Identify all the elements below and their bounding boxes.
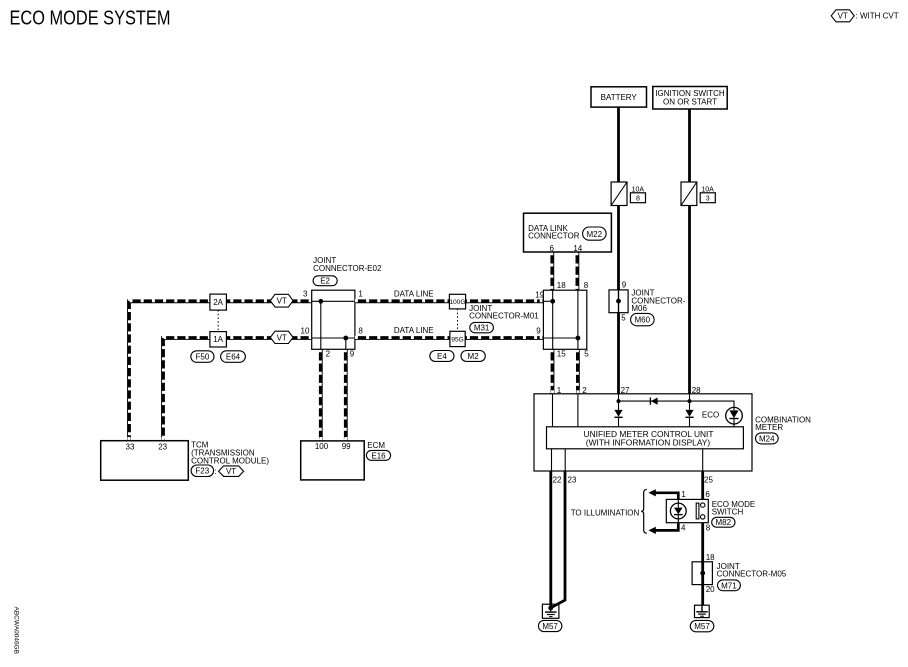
wire CAN M01 pin15 to meter pin1 <box>550 349 554 394</box>
wire CAN TCM pin33 to E02 pin3 (L-shape) <box>129 301 312 441</box>
meter internal wire pin1 <box>552 394 554 427</box>
svg-text:8: 8 <box>636 196 640 203</box>
terminal notch ECM pin100 <box>319 437 322 440</box>
diode D1 at pin27 <box>614 410 622 427</box>
svg-text:25: 25 <box>704 475 713 484</box>
svg-text:F23: F23 <box>195 467 209 476</box>
joint connector M06 box <box>609 290 628 313</box>
junction dot M06 <box>616 299 621 304</box>
connector oval F50 <box>191 351 214 363</box>
VT hexagon TCM <box>219 466 244 477</box>
svg-text:F50: F50 <box>196 352 210 361</box>
svg-text:1: 1 <box>681 490 686 499</box>
svg-text:1A: 1A <box>213 335 223 344</box>
svg-text:E2: E2 <box>320 277 330 286</box>
svg-text:95G: 95G <box>451 337 463 344</box>
connector oval M24 <box>756 433 779 444</box>
diode D3 horizontal <box>650 398 657 405</box>
svg-text:9: 9 <box>622 281 627 290</box>
inline connector 1A <box>210 332 227 347</box>
fuse F1 number box 8 <box>630 193 645 203</box>
meter internal wire pin25 <box>702 449 704 471</box>
svg-text:2: 2 <box>582 386 587 395</box>
svg-text:2A: 2A <box>213 298 223 307</box>
svg-text:8: 8 <box>584 281 589 290</box>
wire CAN TCM pin23 to E02 pin10 (L-shape) <box>163 337 312 440</box>
svg-text:9: 9 <box>350 350 355 359</box>
svg-text:4: 4 <box>681 524 686 533</box>
wire DLC pin6 CAN down <box>550 252 554 290</box>
VT hexagon on lower wire <box>270 331 293 343</box>
terminal notch TCM pin23 <box>162 437 165 440</box>
TCM box <box>101 441 189 481</box>
svg-text:CONTROL MODULE): CONTROL MODULE) <box>191 457 269 466</box>
wire battery vertical <box>617 107 620 394</box>
svg-text:10: 10 <box>301 326 310 335</box>
svg-text:33: 33 <box>126 443 135 452</box>
meter internal bus wire <box>619 401 735 407</box>
meter internal wire pin2 <box>577 394 579 427</box>
connector oval M57 right <box>690 620 714 631</box>
svg-text:23: 23 <box>158 443 167 452</box>
wire meter pin23 to ground <box>551 471 565 608</box>
connector oval E64 <box>221 351 246 363</box>
dotted pair line 2A-1A <box>217 310 219 332</box>
wire CAN E02 pin2 to ECM pin100 <box>318 349 322 440</box>
wire CAN data line E02 pin1 to M01 pin19 <box>355 299 544 303</box>
junction dot E02 pin2 <box>318 299 323 304</box>
svg-text:(WITH INFORMATION DISPLAY): (WITH INFORMATION DISPLAY) <box>586 438 711 448</box>
svg-text:CONNECTOR-M05: CONNECTOR-M05 <box>717 570 787 579</box>
svg-text:DATA LINE: DATA LINE <box>394 326 434 335</box>
svg-text:ECM: ECM <box>367 441 385 450</box>
dotted pair line 100G-95G <box>457 309 459 331</box>
terminal notch M01 pin19 <box>540 299 543 302</box>
connector oval E2 <box>313 276 337 286</box>
svg-text:15: 15 <box>557 350 566 359</box>
fuse F2 number box 3 <box>700 193 715 203</box>
connector oval F23 <box>191 465 214 477</box>
svg-text:20: 20 <box>706 585 715 594</box>
svg-text:E4: E4 <box>437 352 447 361</box>
svg-text:M06: M06 <box>631 304 647 313</box>
joint connector M05 box <box>692 562 712 585</box>
inline connector 95G <box>450 331 465 346</box>
svg-text:VT: VT <box>277 297 287 306</box>
unified meter control unit box <box>547 427 744 449</box>
svg-text:CONNECTOR: CONNECTOR <box>528 232 580 241</box>
svg-text:18: 18 <box>706 553 715 562</box>
brace TO ILLUMINATION <box>641 489 647 533</box>
svg-text:M24: M24 <box>759 434 775 443</box>
wire switch pin8 down to ground <box>701 518 704 606</box>
junction dot E02 pin9 <box>343 336 348 341</box>
svg-text:VT: VT <box>226 467 236 476</box>
terminal notch TCM pin33 <box>128 437 131 440</box>
svg-text:100G: 100G <box>450 299 466 306</box>
wire DLC pin14 CAN down <box>575 252 579 290</box>
svg-text:M31: M31 <box>474 324 490 333</box>
svg-text:M57: M57 <box>542 622 558 631</box>
svg-text:5: 5 <box>621 314 626 323</box>
terminal notch meter pin1 <box>551 390 554 393</box>
connector oval M71 <box>718 580 741 591</box>
ignition switch box <box>653 87 727 110</box>
svg-text:VT: VT <box>277 333 287 342</box>
svg-text:M82: M82 <box>716 518 732 527</box>
fuse F1 10A #8 <box>611 182 627 206</box>
svg-text:9: 9 <box>536 326 541 335</box>
svg-text:22: 22 <box>553 475 562 484</box>
svg-text:19: 19 <box>535 290 544 299</box>
svg-text:23: 23 <box>568 475 577 484</box>
wire meter pin22 to ground <box>549 471 552 608</box>
joint connector E02 box <box>312 290 355 349</box>
connector oval M60 <box>631 313 655 325</box>
label joint connector E02 <box>313 256 382 273</box>
connector oval E4 <box>430 351 454 362</box>
svg-text:BATTERY: BATTERY <box>601 93 638 102</box>
wire CAN E02 pin9 to ECM pin99 <box>343 349 347 440</box>
inline connector 100G <box>449 294 465 309</box>
svg-text:: WITH CVT: : WITH CVT <box>856 12 899 21</box>
inline connector 2A <box>210 294 227 310</box>
connector oval M31 <box>470 322 494 332</box>
ground symbol left <box>545 608 557 617</box>
svg-text:ON OR START: ON OR START <box>663 97 717 106</box>
ground box left M57 <box>542 604 559 618</box>
svg-text:M57: M57 <box>694 622 710 631</box>
connector oval M82 <box>712 517 735 527</box>
ground symbol right <box>696 605 707 616</box>
illumination arrow top <box>648 489 678 499</box>
ECO indicator lamp <box>726 407 743 426</box>
VT hexagon on upper wire <box>270 294 293 307</box>
combination meter box <box>534 394 752 471</box>
svg-text:6: 6 <box>705 490 710 499</box>
terminal notch meter pin2 <box>576 390 579 393</box>
label TCM <box>191 441 269 466</box>
meter internal wire pin23 <box>564 449 566 471</box>
junction dot ground left <box>548 606 553 611</box>
meter internal wire pin27 <box>618 394 620 410</box>
svg-text:5: 5 <box>584 350 589 359</box>
junction dot M01 upper <box>550 299 555 304</box>
ground box right M57 <box>695 605 710 617</box>
illumination arrow bottom <box>648 523 678 534</box>
wire CAN M01 pin5 to meter pin2 <box>575 349 579 394</box>
svg-text::: : <box>215 467 217 476</box>
connector oval E16 <box>366 450 390 460</box>
svg-text:ECO MODE SYSTEM: ECO MODE SYSTEM <box>10 7 171 29</box>
svg-text:E64: E64 <box>226 352 241 361</box>
svg-text:SWITCH: SWITCH <box>712 508 744 517</box>
legend VT hexagon <box>831 10 854 22</box>
ECM box <box>301 441 365 480</box>
svg-text:8: 8 <box>358 326 363 335</box>
svg-text:1: 1 <box>557 386 562 395</box>
svg-text:DATA LINE: DATA LINE <box>394 290 434 299</box>
svg-text:3: 3 <box>303 289 308 298</box>
wire meter pin25 to switch pin6 <box>701 471 704 505</box>
wire CAN data line E02 pin8 to M01 pin9 <box>355 335 544 339</box>
diode D2 at pin28 <box>685 410 693 427</box>
svg-text:TO ILLUMINATION: TO ILLUMINATION <box>571 508 640 517</box>
eco mode switch box M82 <box>666 499 708 522</box>
svg-text:ECO: ECO <box>702 410 719 419</box>
terminal notch M01 pin9 <box>540 336 543 339</box>
meter internal wire pin28 <box>689 394 691 410</box>
svg-text:ABCWA0046GB: ABCWA0046GB <box>13 607 20 654</box>
label joint connector M01 <box>469 304 539 321</box>
junction dot pin27 bus <box>617 399 621 403</box>
svg-text:8: 8 <box>706 524 711 533</box>
svg-text:METER: METER <box>755 423 783 432</box>
svg-text:M22: M22 <box>587 230 603 239</box>
label joint connector M06 <box>631 289 685 314</box>
svg-text:6: 6 <box>549 244 554 253</box>
svg-text:100: 100 <box>315 442 329 451</box>
connector oval M22 <box>583 227 607 240</box>
svg-text:CONNECTOR-M01: CONNECTOR-M01 <box>469 312 539 321</box>
svg-text:1: 1 <box>358 289 363 298</box>
svg-text:M60: M60 <box>635 316 651 325</box>
junction dot pin28 bus <box>688 399 692 403</box>
svg-text:14: 14 <box>573 244 582 253</box>
connector oval M57 left <box>538 620 562 631</box>
label ECO MODE SWITCH <box>712 500 756 517</box>
svg-text:M71: M71 <box>721 581 737 590</box>
svg-text:3: 3 <box>706 196 710 203</box>
wire ignition vertical <box>688 109 691 394</box>
connector oval M2 <box>461 351 485 362</box>
svg-text:18: 18 <box>557 281 566 290</box>
svg-text:CONNECTOR-E02: CONNECTOR-E02 <box>313 264 382 273</box>
terminal notch ECM pin99 <box>344 437 347 440</box>
data link connector M22 box <box>524 213 612 252</box>
svg-text:28: 28 <box>692 386 701 395</box>
label joint connector M05 <box>717 562 787 579</box>
svg-text:E16: E16 <box>371 451 386 460</box>
svg-text:2: 2 <box>326 350 331 359</box>
junction dot M05 <box>700 571 705 576</box>
junction dot M01 lower <box>576 336 581 341</box>
meter internal wire pin22 <box>551 449 553 471</box>
svg-text:27: 27 <box>621 386 630 395</box>
joint connector M01 box <box>543 290 586 349</box>
label COMBINATION METER <box>755 415 811 432</box>
fuse F2 10A #3 <box>681 182 697 206</box>
svg-text:M2: M2 <box>468 352 480 361</box>
battery B+ box <box>591 87 647 107</box>
svg-text:VT: VT <box>838 12 848 21</box>
svg-text:99: 99 <box>342 442 351 451</box>
